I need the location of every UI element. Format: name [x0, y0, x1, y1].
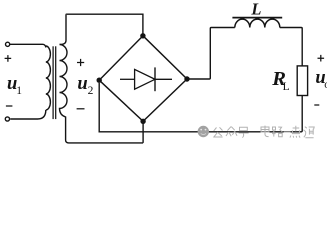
junction dot bottom vertex — [140, 119, 145, 124]
transformer T primary winding — [46, 46, 51, 110]
transformer core line left — [52, 46, 54, 119]
wire resistor bottom / DC minus rail — [99, 83, 302, 132]
diode D lead anode — [120, 78, 135, 80]
wire input bottom — [10, 110, 46, 119]
watermark icon — [198, 126, 209, 137]
label plus u2 — [77, 59, 84, 66]
svg-text:1: 1 — [16, 85, 22, 97]
bridge rectifier diamond — [99, 36, 187, 122]
label plus u1 — [5, 55, 12, 62]
wire AC2 riser to bottom vertex — [142, 121, 144, 143]
label plus uo — [318, 55, 325, 62]
inductor L core bar — [232, 17, 282, 19]
watermark char dian — [261, 126, 269, 137]
wire input top — [10, 44, 46, 47]
svg-text:L: L — [250, 0, 261, 18]
svg-text:u: u — [77, 74, 87, 94]
diode D triangle — [135, 69, 155, 89]
watermark char yi — [284, 131, 291, 133]
diode D cathode bar — [154, 67, 156, 91]
diode D lead cathode — [155, 78, 172, 80]
junction dot right vertex — [184, 76, 189, 81]
watermark char zhong — [226, 127, 237, 137]
wire inductor to resistor top — [280, 28, 302, 66]
wire secondary top to bridge top vertex — [66, 14, 143, 36]
watermark char tong — [303, 127, 314, 138]
watermark char gong — [213, 127, 222, 137]
terminal input top — [6, 42, 10, 46]
junction dot top vertex — [140, 33, 145, 38]
svg-text:L: L — [283, 81, 290, 93]
junction dot left vertex — [97, 78, 102, 83]
terminal input bottom — [5, 117, 9, 121]
label minus u2 — [77, 108, 85, 110]
label minus uo — [314, 104, 319, 106]
resistor RL box — [297, 66, 307, 96]
transformer T secondary winding — [60, 15, 144, 143]
watermark char dianr — [290, 126, 300, 138]
watermark char lu — [272, 127, 282, 137]
label minus u1 — [6, 105, 12, 107]
svg-text:2: 2 — [88, 85, 94, 97]
inductor L winding — [235, 19, 280, 27]
transformer core line right — [55, 46, 57, 119]
watermark char hao — [239, 127, 249, 137]
wire right vertex to inductor — [187, 28, 235, 80]
